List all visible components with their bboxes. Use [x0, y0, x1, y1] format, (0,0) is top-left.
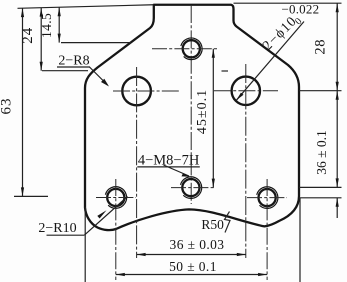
top extension line left [18, 5, 154, 9]
hole bottom-right M8 inner [259, 189, 276, 206]
hole phi10 left [122, 77, 151, 106]
dimension 50±0.1 line [116, 274, 267, 276]
label 2-R8 underline [57, 66, 90, 68]
label 4-M8-7H underline [137, 166, 200, 168]
svg-text:2−R8: 2−R8 [58, 54, 89, 69]
hole phi10 right [232, 77, 260, 105]
svg-text:36 ± 0.1: 36 ± 0.1 [314, 130, 329, 175]
svg-text:63: 63 [0, 98, 15, 115]
hole top M8 U-inner [183, 40, 200, 57]
hole bottom-center M8 outer thread arc [180, 177, 201, 199]
label 2-R10 underline [47, 234, 85, 236]
bottom-left hole vertical centerline / extension [115, 179, 117, 280]
extension line right bottom row [299, 197, 342, 199]
cropped lower-right dimension line [336, 198, 338, 218]
label R50 squiggle [225, 212, 231, 233]
bottom-center hole horizontal centerline [171, 187, 215, 189]
svg-text:2−R10: 2−R10 [38, 221, 76, 236]
dimension 36±0.03 line [137, 254, 246, 256]
phi10 left horizontal centerline [113, 90, 180, 92]
extension line bottom-left vertical [84, 207, 86, 282]
top hole horizontal centerline [152, 48, 219, 50]
dimension 24 line [40, 8, 42, 71]
dimension 28 line [336, 3, 338, 91]
svg-text:4−M8−7H: 4−M8−7H [138, 153, 200, 169]
label 2-phi10 rotated text [260, 11, 304, 55]
label 2-R8 leader [90, 67, 108, 85]
main vertical centerline [190, 5, 192, 204]
svg-text:R50: R50 [201, 217, 224, 232]
stray centerline dash [222, 70, 229, 72]
extension line bottom-right vertical [299, 198, 301, 282]
svg-text:24: 24 [20, 27, 36, 44]
svg-text:28: 28 [312, 39, 328, 55]
bottom-right hole vertical centerline / extension [266, 179, 268, 280]
svg-text:36 ± 0.03: 36 ± 0.03 [170, 237, 225, 252]
label 4-M8-7H leader [164, 165, 190, 176]
phi10 left vertical centerline / extension [136, 67, 138, 258]
top extension line right [234, 2, 342, 4]
dimension 36±0.1 line [336, 91, 338, 188]
extension line left 63 bottom [14, 195, 48, 197]
dimension 45±0.1 line [212, 49, 214, 188]
bottom-right hole horizontal centerline [247, 197, 287, 199]
hole bottom-right M8 outer thread arc [257, 187, 278, 209]
label 2-phi10 leader [236, 22, 304, 101]
extension line right bottom-center row [299, 186, 342, 188]
dimension 63 line [22, 8, 24, 196]
extension line left 24 [42, 70, 88, 72]
svg-text:50 ± 0.1: 50 ± 0.1 [169, 259, 217, 274]
dimension 14.5 line [58, 7, 60, 42]
svg-text:−0.022: −0.022 [282, 2, 320, 17]
label 2-R10 leader [84, 197, 127, 236]
hole bottom-left M8 inner [107, 189, 124, 206]
phi10 right horizontal centerline [214, 90, 278, 92]
svg-text:14.5: 14.5 [39, 13, 54, 38]
extension line right phi10 row [299, 90, 342, 92]
hole bottom-center M8 inner [182, 179, 199, 196]
svg-text:45±0.1: 45±0.1 [195, 89, 210, 134]
extension line left 14.5 [61, 42, 131, 44]
hole bottom-left M8 outer thread arc [105, 187, 126, 209]
phi10 right vertical centerline / extension [245, 64, 247, 258]
plate outline [85, 5, 299, 230]
bottom-left hole horizontal centerline [96, 197, 136, 199]
hole top M8 outer thread arc [181, 38, 202, 60]
